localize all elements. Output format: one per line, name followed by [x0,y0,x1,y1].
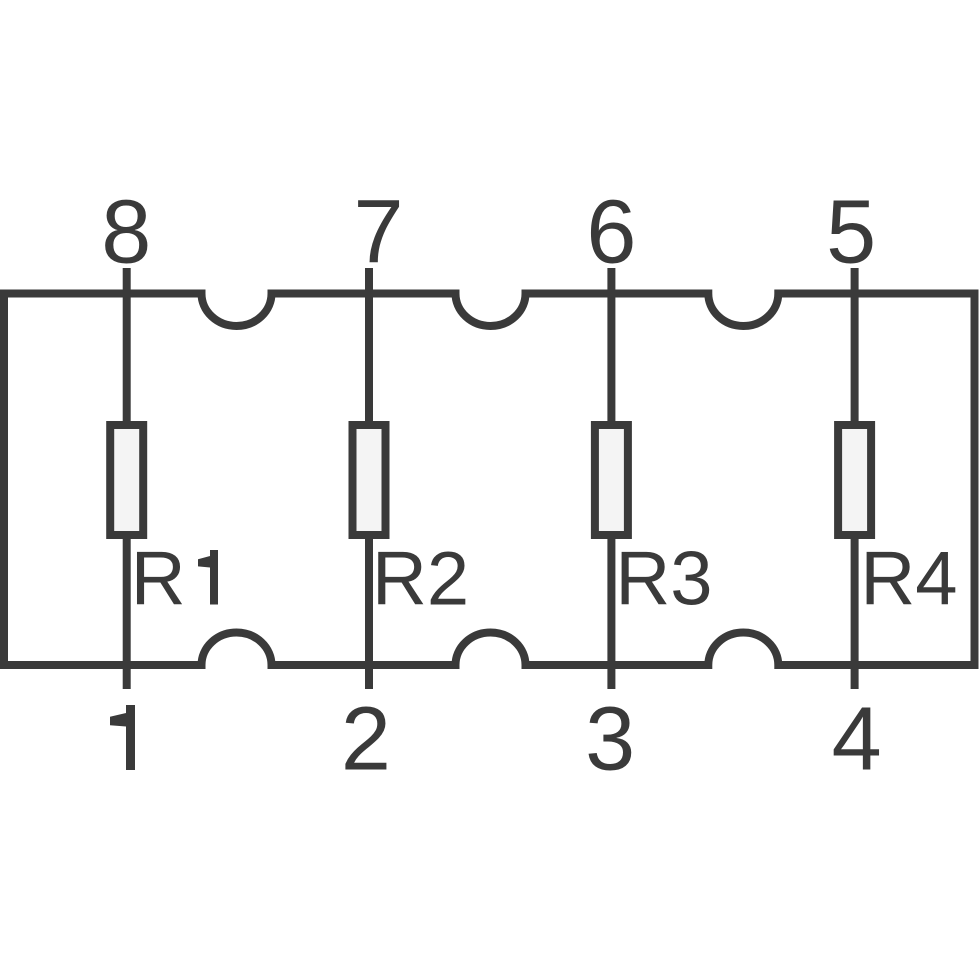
svg-text:2: 2 [341,690,391,790]
resistor R2 body [353,425,386,535]
pin 1 lead wire [123,535,131,689]
pin 7 lead wire [365,268,373,425]
resistor R4 body [838,425,871,535]
svg-text:R3: R3 [615,537,712,622]
svg-text:4: 4 [832,690,882,790]
pin 8 lead wire [123,268,131,425]
svg-text:7: 7 [353,183,403,283]
pin 5 lead wire [851,268,859,425]
pin 6 lead wire [607,268,615,425]
svg-text:3: 3 [585,690,635,790]
package outline with index notches [4,294,975,666]
pin 3 lead wire [607,535,615,689]
svg-text:5: 5 [826,183,876,283]
svg-text:R4: R4 [860,537,957,622]
pin 2 lead wire [365,535,373,689]
svg-text:R: R [131,537,186,622]
pin 4 lead wire [851,535,859,689]
resistor R3 body [595,425,628,535]
svg-text:6: 6 [586,183,636,283]
pin 1 number [110,705,135,770]
svg-text:8: 8 [101,183,151,283]
resistor R1 body [110,425,143,535]
svg-text:R2: R2 [372,537,469,622]
